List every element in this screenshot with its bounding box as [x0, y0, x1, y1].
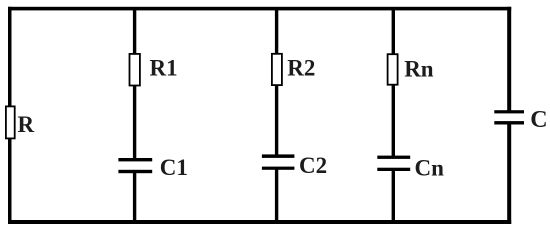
svg-text:R: R — [18, 112, 35, 137]
capacitor C1 — [118, 158, 152, 173]
capacitor C2 — [262, 154, 295, 169]
resistor R — [6, 106, 15, 138]
capacitor C — [494, 110, 524, 124]
resistor R1 — [130, 54, 140, 86]
wire branch 2 lower — [275, 168, 278, 222]
wire branch 2 upper — [275, 8, 278, 156]
wire bottom border — [8, 220, 511, 224]
wire branch 3 upper — [392, 8, 395, 157]
wire branch 1 lower — [133, 172, 136, 223]
resistor R2 — [272, 54, 282, 85]
wire right border lower segment — [507, 124, 511, 225]
svg-text:C2: C2 — [299, 153, 327, 178]
wire branch 1 upper — [133, 8, 136, 160]
wire left border — [8, 7, 12, 224]
wire branch 3 lower — [392, 170, 395, 223]
svg-text:C1: C1 — [160, 155, 188, 180]
wire top border — [8, 7, 511, 11]
svg-text:C: C — [530, 107, 547, 133]
svg-text:R2: R2 — [287, 56, 315, 81]
svg-text:Cn: Cn — [415, 156, 445, 181]
svg-text:R1: R1 — [150, 56, 178, 81]
resistor Rn — [388, 54, 398, 84]
svg-text:Rn: Rn — [404, 56, 434, 81]
capacitor Cn — [377, 156, 410, 171]
wire right border upper segment — [507, 7, 511, 112]
